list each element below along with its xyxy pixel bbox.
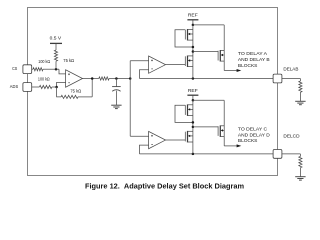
supply 0.5V [50,43,62,50]
svg-text:BLOCKS: BLOCKS [238,63,258,68]
transistor M2 [185,56,193,68]
node ADS junction [55,86,58,89]
wire RC [109,78,130,80]
wire REF A to M3 drain [193,24,224,26]
svg-text:75 kΩ: 75 kΩ [70,89,81,94]
svg-text:Figure 12. Adaptive Delay Set: Figure 12. Adaptive Delay Set Block Diag… [85,181,244,190]
wire source bus A [140,78,274,80]
svg-text:100 kΩ: 100 kΩ [38,77,50,82]
svg-text:AND DELAY D: AND DELAY D [238,132,270,137]
svg-text:AND DELAY B: AND DELAY B [238,57,270,62]
wire output A [224,70,237,72]
wire ADS to op-amp [32,82,66,87]
wire to U3 plus [130,135,148,137]
op-amp U1 [66,70,83,87]
svg-text:CS: CS [12,66,17,71]
svg-text:ADS: ADS [10,84,19,89]
svg-text:REF: REF [188,13,198,18]
wire feedback U1 [57,79,93,97]
wire M6 gate [193,126,218,128]
op-amp U2 [149,56,166,73]
wire source bus B [140,153,274,155]
node source bus B [192,153,195,156]
label 0.5V [50,35,61,40]
wire U2 output to M2 gate [166,64,186,66]
label REF B [188,88,198,93]
label 75k feedback [70,89,81,94]
wire U3 minus feedback [140,145,149,154]
op-amp U3 [149,131,166,148]
node RC output [129,77,132,80]
capacitor C1 [112,79,121,106]
svg-text:DELCD: DELCD [283,133,300,138]
wire to U2 plus [130,60,148,62]
label to delay CD [238,126,270,143]
wire mirror column B [192,100,194,154]
transistor M6 [218,125,224,136]
wire RC node vertical [129,61,131,137]
pin ADS [23,83,32,92]
supply REF B [187,95,198,100]
label DELAB [283,67,298,72]
label CS [12,66,17,71]
svg-text:DELAB: DELAB [283,67,298,72]
wire M4 gate loop [175,105,193,122]
svg-text:TO DELAY A: TO DELAY A [238,51,268,56]
node M6 gate tap [192,126,195,128]
resistor 75k pullup [54,50,57,61]
label ADS [10,84,19,89]
svg-text:TO DELAY C: TO DELAY C [238,126,268,131]
transistor M4 [185,104,193,116]
ground capacitor [111,105,121,108]
label to delay AB [238,51,270,68]
transistor M1 [185,29,193,41]
transistor M3 [218,50,224,62]
resistor DELAB [299,81,302,92]
node U1 output [91,77,94,80]
wire M3 drain column [223,25,225,71]
node REF B [192,99,195,102]
pin CS [23,65,32,74]
wire M6 drain column [223,100,225,146]
node M1 gate tie [192,46,195,49]
block border [28,8,278,176]
wire mirror column A [192,25,194,79]
ground DELCD [295,177,305,180]
wire U2 minus feedback [140,70,149,79]
wire 75k to node [55,61,57,69]
node CS junction [55,68,58,71]
resistor 100k CS [33,68,43,71]
supply REF A [187,20,198,25]
wire DELAB resistor [282,79,301,82]
label 75k pullup [63,58,74,63]
wire U1 output [83,78,99,80]
node capacitor tap [115,77,118,80]
wire CS to op-amp [32,69,66,74]
label 100k CS [38,59,50,64]
resistor DELCD [299,156,302,167]
svg-text:0.5 V: 0.5 V [50,35,61,40]
wire M1 gate loop [175,30,193,47]
wire DELCD resistor [282,154,301,157]
pin DELAB [273,74,282,83]
node M3 gate tap [192,50,195,53]
svg-text:REF: REF [188,88,198,93]
pin DELCD [273,150,282,159]
label 100k ADS [38,77,50,82]
wire REF B to M6 drain [193,99,224,101]
svg-text:BLOCKS: BLOCKS [238,138,258,143]
svg-text:100 kΩ: 100 kΩ [38,59,50,64]
wire DELAB ground [299,92,301,101]
label REF A [188,13,198,18]
resistor 100k ADS [39,85,52,88]
wire output B [224,145,237,147]
wire DELCD ground [299,168,301,177]
ground DELAB [295,101,305,104]
arrow output B [237,144,242,147]
node M4 gate tie [192,121,195,124]
transistor M5 [185,131,193,143]
wire U3 output to M5 gate [166,139,186,141]
caption [85,181,244,190]
node REF A [192,24,195,27]
resistor 75k feedback [61,95,78,98]
node source bus A [192,77,195,80]
svg-text:75 kΩ: 75 kΩ [63,58,74,63]
label DELCD [283,133,300,138]
wire M3 gate [193,51,218,53]
arrow output A [237,69,242,72]
resistor RC filter [99,77,109,80]
